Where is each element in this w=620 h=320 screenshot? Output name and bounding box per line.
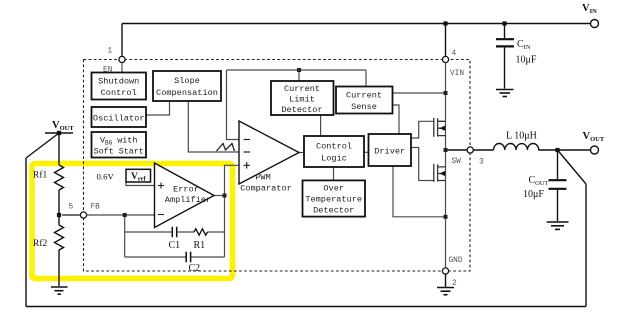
svg-text:Logic: Logic [321,154,347,164]
svg-text:Soft Start: Soft Start [94,147,144,157]
terminal VIN circle [591,20,599,28]
svg-text:10μF: 10μF [516,55,537,66]
wire top rail VIN [122,23,591,25]
pin 1 lead into shutdown [121,63,123,73]
svg-text:GND: GND [449,257,463,265]
wire top internal rail (current limit / current sense) [227,70,367,86]
svg-text:C2: C2 [189,263,201,274]
VOUT node bar (left) [45,132,73,134]
svg-text:0.6V: 0.6V [97,172,115,182]
wire driver to lower gate [411,148,433,181]
wire PWM output to control logic [299,152,304,154]
wire FB to error amp minus input [87,214,155,216]
svg-text:Shutdown: Shutdown [98,77,139,87]
wire current limit detector to control logic [320,115,322,136]
wire control logic to over temperature detector [333,167,335,180]
pin 2 circle [442,268,448,274]
svg-text:VIN: VIN [450,70,464,78]
wire FB pin to divider [62,214,80,216]
block Control Logic [304,136,364,167]
svg-text:Detector: Detector [281,105,322,115]
wire COUT leg upper [557,150,559,179]
block Slope Compensation [153,71,221,101]
ramp sawtooth symbol [217,144,235,152]
svg-text:Current: Current [284,84,320,94]
svg-text:Rf2: Rf2 [33,238,48,249]
op-amp error amplifier triangle [155,163,215,228]
wire CIN leg lower [504,48,506,89]
wire slope compensation to PWM ramp input [188,101,239,152]
resistor Rf2 [55,215,64,286]
svg-text:Control: Control [101,88,137,98]
wire feedback diagonal from VOUT node (right) [558,150,587,184]
svg-text:EN: EN [103,67,113,75]
wire vref to error amp plus input [126,182,155,186]
ground below pin 2 [437,288,454,295]
block Driver [369,134,412,166]
wire comp rail C1 R1 [125,231,225,233]
svg-text:Error: Error [173,185,199,195]
resistor Rf1 [55,133,64,215]
svg-text:1: 1 [108,48,113,56]
svg-text:SW: SW [452,158,462,166]
svg-text:2: 2 [452,280,457,288]
svg-text:Compensation: Compensation [156,88,218,98]
wire VIN rail through MOSFETs [445,63,447,268]
svg-text:Rf1: Rf1 [33,170,48,181]
svg-text:Limit: Limit [289,95,315,105]
svg-text:Slope: Slope [174,76,200,86]
Q1 body arrow [440,126,446,131]
highlight box (yellow) around error amplifier section [32,164,233,279]
block Vref [126,169,151,182]
wire SW to inductor [473,149,493,151]
wire rail to SW pin [446,149,468,151]
wire CIN leg upper [504,24,506,39]
junction dot driver gnd rail [444,215,448,219]
junction dot error amp output [223,194,227,198]
wire bottom feedback rail [26,306,586,308]
wire control logic to driver [364,151,369,153]
wire right feedback vertical [585,184,587,307]
capacitor C1 [172,227,176,237]
svg-text:Driver: Driver [374,147,405,157]
ground below Rf2 [51,287,68,294]
svg-text:Oscillator: Oscillator [93,114,145,124]
wire pin4 drop [445,24,447,57]
junction dot VOUT node right [555,148,559,152]
IC package dashed boundary [84,60,471,272]
svg-text:3: 3 [479,159,484,167]
junction dot top internal rail [297,68,301,72]
svg-text:Current: Current [346,91,382,101]
junction dot FB comp [123,213,127,217]
wire feedback diagonal to VOUT node [26,133,59,158]
wire COUT leg lower [557,190,559,222]
junction dot top rail / pin4 [443,21,447,25]
wire driver to upper gate [411,121,433,138]
comparator PWM triangle [239,121,299,194]
wire current sense to VIN rail [392,92,445,94]
block VBG with Soft Start [92,132,147,158]
junction dot top rail / CIN [502,21,506,25]
wire comp network left leg [124,215,126,257]
wire error amp output [214,195,225,197]
pin 5 circle [80,212,86,218]
inductor L coil [494,144,539,151]
svg-text:4: 4 [452,50,457,58]
svg-text:Amplifier: Amplifier [165,195,211,205]
terminal VOUT circle [591,146,599,154]
wire pin1 drop [121,24,123,57]
wire left feedback vertical [25,158,27,307]
wire current sense to driver [392,105,399,134]
INTERNAL WIRES [126,63,446,268]
wire inductor to VOUT terminal [539,149,591,151]
svg-text:PWM: PWM [255,173,270,183]
wire current-limit rail to PWM minus input [227,70,240,140]
junction dot current sense rail [444,91,448,95]
block Current Limit Detector [271,81,334,115]
svg-text:10μF: 10μF [523,189,544,200]
svg-text:Detector: Detector [313,206,354,216]
svg-text:Over: Over [323,184,344,194]
svg-text:FB: FB [91,204,101,212]
pin 4 circle [442,56,448,62]
block Oscillator [92,107,147,127]
svg-text:L 10μH: L 10μH [506,131,537,142]
block Over Temperature Detector [303,180,366,216]
svg-text:5: 5 [69,204,74,212]
capacitor C2 [186,252,190,262]
svg-text:Sense: Sense [351,102,377,112]
capacitor CIN [496,39,514,46]
wire oscillator to slope compensation [146,101,170,115]
Q2 body arrow [440,171,446,176]
node VOUT left junction dot [57,131,61,135]
wire driver bottom to gnd rail [393,166,446,217]
transistor Q2 lower MOSFET [434,164,446,182]
ground below COUT [547,222,569,229]
wire comp network right leg to PWM plus [225,165,240,257]
block Current Sense [336,87,393,114]
svg-text:C1: C1 [169,240,181,251]
junction dot FB divider [57,213,61,217]
svg-text:R1: R1 [194,240,206,251]
transistor Q1 upper MOSFET [434,118,446,137]
wire comp rail C2 [125,256,225,258]
svg-text:Temperature: Temperature [305,195,362,205]
junction dot SW node [444,148,448,152]
svg-text:Comparator: Comparator [240,184,292,194]
pin 2 ground lead [445,274,447,287]
capacitor COUT [549,180,567,189]
ground below CIN [496,90,514,97]
svg-text:Control: Control [316,142,352,152]
pin 1 circle [119,56,125,62]
resistor R1 [194,229,208,235]
pin 3 circle [467,147,473,153]
block Shutdown Control [92,73,147,100]
